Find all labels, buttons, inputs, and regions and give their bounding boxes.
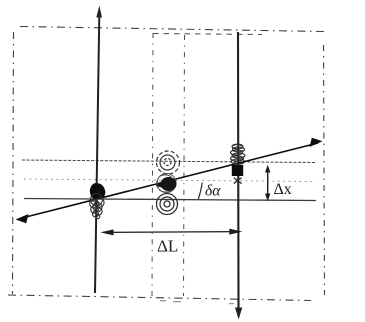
svg-text:Δx: Δx [274, 181, 292, 198]
x mark under square [234, 178, 242, 184]
source scribble tail [90, 194, 105, 219]
delta-x dimension arrow [265, 165, 270, 201]
lens coil: bottom rings [157, 194, 178, 215]
lens coil: top rings [157, 151, 180, 174]
source blob on V1 (solid black) [90, 183, 106, 200]
detector black square [232, 165, 243, 176]
inner dashed box (lens column) [152, 33, 262, 296]
svg-text:δα: δα [205, 183, 221, 200]
source tail specks [92, 200, 100, 219]
scan specks below bottom line [160, 300, 234, 304]
angle arc for delta alpha [198, 183, 202, 200]
right vertical axis V2 with down arrow [235, 32, 242, 320]
lens centre arrowhead (beam) [156, 177, 172, 191]
delta-L dimension arrow [101, 229, 243, 236]
dotted reference line L1 (through detector centre) [22, 160, 315, 163]
left vertical axis V1 with up arrow [95, 6, 102, 294]
svg-text:ΔL: ΔL [157, 237, 178, 256]
lens centre scribble [157, 175, 174, 192]
slanted ray with arrows both ends [16, 138, 323, 223]
lens centre ring [157, 174, 176, 193]
detector coil specks [232, 147, 244, 164]
faint dotted reference line L2 (through lens centre) [24, 179, 314, 182]
detector coil scribble on V2 [231, 144, 246, 164]
solid horizontal axis L3 [24, 199, 316, 201]
lens centre black blob [161, 177, 177, 191]
outer dash-dot frame [8, 27, 325, 301]
